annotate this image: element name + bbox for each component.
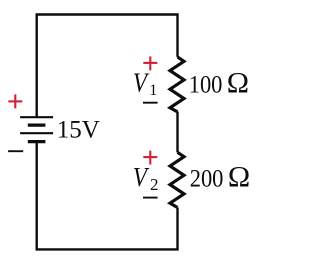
resistor R1 value 100 bbox=[189, 72, 223, 99]
svg-text:V: V bbox=[133, 69, 150, 98]
svg-text:1: 1 bbox=[149, 82, 157, 99]
wire: top rail from battery + to R1 bbox=[37, 15, 178, 118]
svg-text:Ω: Ω bbox=[228, 160, 250, 193]
polarity + of V1 bbox=[143, 56, 157, 70]
svg-text:V: V bbox=[133, 163, 150, 192]
svg-text:100: 100 bbox=[189, 72, 223, 99]
voltage label V2 bbox=[133, 163, 150, 192]
svg-text:2: 2 bbox=[150, 175, 159, 194]
polarity + of V2 bbox=[143, 151, 157, 165]
svg-text:Ω: Ω bbox=[227, 67, 249, 100]
battery polarity + bbox=[8, 94, 22, 108]
resistor R1 bbox=[170, 57, 184, 112]
wire: node between R1 and R2 bbox=[176, 112, 178, 153]
svg-text:15V: 15V bbox=[57, 117, 100, 144]
resistor R2 bbox=[170, 152, 184, 207]
resistor R2 value 200 bbox=[190, 165, 224, 192]
polarity - of V2 bbox=[143, 197, 158, 199]
svg-text:200: 200 bbox=[190, 165, 224, 192]
polarity - of V1 bbox=[143, 102, 158, 104]
battery polarity - bbox=[8, 150, 23, 152]
battery 15V bbox=[20, 117, 53, 141]
wire: bottom rail from battery - to R2 bbox=[37, 142, 178, 250]
voltage label V1 bbox=[133, 69, 150, 98]
